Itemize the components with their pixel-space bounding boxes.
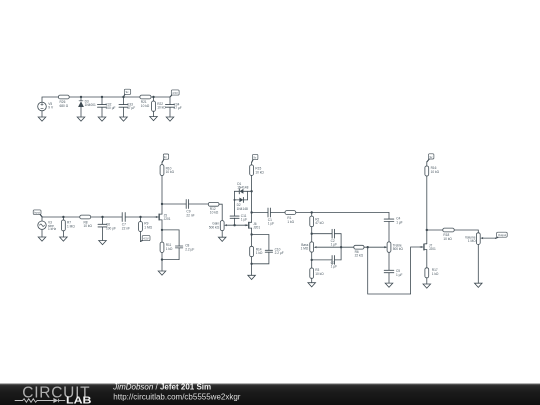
svg-text:100 pF: 100 pF [106, 226, 116, 230]
svg-text:Input: Input [34, 211, 40, 215]
ground (stage2 source) [248, 275, 256, 279]
svg-text:1 kΩ: 1 kΩ [287, 220, 294, 224]
wire R11 bottom [161, 252, 163, 271]
logo wire-resistor-diode [15, 398, 65, 403]
ground (V3) [38, 237, 46, 241]
wire signal rail [42, 216, 122, 218]
svg-text:4.5V: 4.5V [172, 91, 178, 95]
svg-text:22 nF: 22 nF [186, 214, 194, 218]
wire R14 bottom [251, 257, 253, 276]
node flag 4.5V (bias R9) [141, 236, 150, 242]
svg-text:100 µF: 100 µF [106, 106, 116, 110]
resistor R6 [354, 245, 386, 249]
resistor R26 [58, 95, 69, 99]
resistor R8 [80, 215, 91, 219]
ground (R7) [60, 237, 68, 241]
wire diode loop verticals [234, 191, 247, 200]
capacitor C8 [175, 246, 182, 248]
svg-text:1 µF: 1 µF [396, 273, 402, 277]
wire J6 drain [251, 175, 253, 222]
svg-text:10 kΩ: 10 kΩ [443, 237, 452, 241]
svg-text:1 µF: 1 µF [331, 243, 337, 247]
wire J7 source [426, 250, 428, 268]
resistor R7 [62, 217, 66, 237]
transistor J5 [155, 214, 162, 221]
ground (R3) [308, 283, 316, 287]
node junction R6 right [367, 246, 369, 248]
svg-text:1 MΩ: 1 MΩ [144, 225, 152, 229]
node flag Output [496, 232, 508, 238]
svg-text:22 nF: 22 nF [122, 227, 130, 231]
svg-text:1N4001: 1N4001 [85, 103, 96, 107]
node junction J5 source / C8 top [161, 229, 163, 231]
node junction R14 bottom / C10 [250, 263, 252, 265]
resistor R14 [250, 246, 254, 256]
svg-text:500 kΩ: 500 kΩ [209, 225, 220, 229]
svg-text:22 kΩ: 22 kΩ [355, 254, 364, 258]
voltage source V5 [38, 102, 47, 111]
node junction D loop left bottom [234, 199, 236, 201]
capacitor C10 [265, 250, 272, 252]
svg-text:9 V: 9 V [48, 106, 54, 110]
node junction J6 drain / C1 [250, 211, 252, 213]
node junction R22 top [152, 96, 154, 98]
wire C10 branch [252, 235, 269, 264]
node junction J7 drain / R18 [426, 229, 428, 231]
potentiometer Bass [310, 242, 354, 268]
resistor R3 [310, 268, 314, 283]
svg-text:10 kΩ: 10 kΩ [315, 272, 324, 276]
schematic text labels [34, 90, 506, 277]
wire rail R26 to R21 [69, 96, 140, 98]
ground (stage1 source) [158, 271, 166, 275]
resistor R15 [250, 162, 254, 175]
resistor R9 [139, 217, 143, 241]
node flag 9v (R16) [427, 154, 434, 162]
svg-text:LAB: LAB [66, 396, 92, 405]
node junction R11 bottom / C8 [161, 258, 163, 260]
diode D2 [234, 197, 247, 202]
capacitor C4 [384, 213, 394, 242]
ground (R22) [150, 117, 158, 121]
wire V3 bottom [41, 229, 43, 237]
footer bar [0, 384, 540, 405]
ground (Volume pot) [475, 283, 483, 287]
svg-text:J201: J201 [164, 217, 171, 221]
svg-text:1N4148: 1N4148 [237, 186, 248, 190]
node junction J5 drain / C9 [161, 203, 163, 205]
capacitor C34 [166, 97, 175, 117]
potentiometer Treble [384, 242, 391, 270]
svg-text:1 kΩ: 1 kΩ [432, 272, 439, 276]
node junction R7 top [62, 216, 64, 218]
svg-text:1 µF: 1 µF [331, 265, 337, 269]
capacitor C5 [384, 270, 394, 283]
node flag 4.5V (supply) [170, 90, 179, 97]
ground (C33) [120, 117, 128, 121]
resistor R10 [160, 162, 164, 176]
node junction tone input [311, 211, 313, 213]
node flag 9v (supply) [124, 89, 131, 97]
node junction R9 top [139, 216, 141, 218]
capacitor C1 [252, 208, 285, 217]
node flag 9v (R15) [252, 154, 258, 162]
svg-text:1 MΩ: 1 MΩ [301, 247, 309, 251]
svg-text:1 MΩ: 1 MΩ [468, 239, 476, 243]
resistor R12 [208, 202, 222, 220]
ground (V5) [38, 117, 46, 121]
wire J7 drain [426, 176, 428, 244]
svg-text:Output: Output [498, 233, 506, 237]
node junction wiper cross [340, 246, 342, 248]
resistor R16 [425, 162, 429, 176]
svg-text:1N4148: 1N4148 [237, 207, 248, 211]
svg-text:J201: J201 [253, 225, 260, 229]
node junction Bass bottom [311, 259, 313, 261]
svg-text:J201: J201 [429, 247, 436, 251]
svg-text:1 µF: 1 µF [241, 218, 247, 222]
voltage source V3 [38, 221, 46, 229]
capacitor C2 [312, 229, 341, 238]
svg-text:1 µF: 1 µF [396, 220, 402, 224]
svg-text:1 kHz: 1 kHz [48, 227, 57, 231]
capacitor C3 [312, 256, 341, 265]
svg-text:1 MΩ: 1 MΩ [67, 224, 75, 228]
potentiometer Volume [476, 233, 496, 283]
svg-text:1 kΩ: 1 kΩ [256, 251, 263, 255]
resistor R2 [310, 213, 314, 242]
wire J5 drain [161, 176, 163, 215]
wire V3 top to signal rail [41, 217, 43, 221]
svg-text:1 µF: 1 µF [268, 222, 274, 226]
svg-text:10 kΩ: 10 kΩ [255, 170, 264, 174]
wire V5 top to rail [42, 97, 58, 102]
svg-text:10 kΩ: 10 kΩ [210, 211, 219, 215]
node junction R2 bottom [311, 233, 313, 235]
svg-text:1 kΩ: 1 kΩ [166, 247, 173, 251]
svg-text:500 kΩ: 500 kΩ [393, 247, 404, 251]
capacitor C33 [119, 97, 128, 117]
resistor R18 [427, 228, 479, 233]
node junction C32 top [101, 96, 103, 98]
wire R21 to C34 [151, 96, 170, 98]
svg-text:680 Ω: 680 Ω [60, 104, 69, 108]
ground (R17) [423, 284, 431, 288]
diode D3 [78, 97, 84, 117]
wire C8 branch [162, 230, 179, 260]
potentiometer Gain [220, 221, 247, 238]
ground (Gain pot) [218, 237, 226, 241]
wire J6 source [251, 228, 253, 246]
ground (C34) [166, 117, 174, 121]
node junction D1 drain [250, 190, 252, 192]
diode D1 [234, 189, 251, 194]
resistor R11 [160, 242, 164, 252]
wire routing to J7 gate [368, 247, 422, 294]
resistor R21 [140, 95, 151, 99]
svg-text:2.2 µF: 2.2 µF [185, 247, 194, 251]
svg-text:10 kΩ: 10 kΩ [166, 170, 175, 174]
capacitor C6 [98, 217, 107, 241]
capacitor C32 [98, 97, 107, 117]
node junction C33 top [122, 96, 124, 98]
ground (C32) [98, 117, 106, 121]
svg-text:10 kΩ: 10 kΩ [431, 170, 440, 174]
wire J5 source [161, 220, 163, 242]
capacitor C9 [162, 200, 208, 209]
svg-text:10 kΩ: 10 kΩ [84, 224, 93, 228]
transistor J7 [420, 244, 427, 251]
svg-text:JimDobson / Jefet 201 Sim: JimDobson / Jefet 201 Sim [112, 382, 211, 391]
svg-text:4.5V: 4.5V [143, 237, 149, 241]
transistor J6 [245, 222, 252, 229]
node flag Input [33, 210, 42, 217]
wire V5 bottom [41, 111, 43, 117]
ground (D3) [77, 117, 85, 121]
capacitor C7 [122, 213, 156, 222]
capacitor C11 [230, 200, 239, 225]
resistor R17 [425, 268, 429, 284]
node junction C6 top [101, 216, 103, 218]
svg-text:10 kΩ: 10 kΩ [157, 106, 166, 110]
svg-text:10 kΩ: 10 kΩ [141, 104, 150, 108]
resistor R1 [285, 211, 389, 215]
node junction D3 top [80, 96, 82, 98]
node flag 9v (R10) [162, 154, 169, 162]
node junction J6 source / C10 top [250, 233, 252, 235]
ground (C6) [99, 241, 107, 245]
svg-text:http://circuitlab.com/cb5555we: http://circuitlab.com/cb5555we2xkgr [113, 393, 241, 402]
svg-text:2.2 µF: 2.2 µF [275, 251, 284, 255]
svg-text:47 kΩ: 47 kΩ [315, 221, 324, 225]
wire tone right vertical [340, 234, 342, 260]
svg-text:47 µF: 47 µF [174, 106, 182, 110]
svg-text:47 µF: 47 µF [127, 106, 135, 110]
node junction gate J6 / C11 [233, 224, 235, 226]
ground (C5) [385, 283, 393, 287]
resistor R22 [152, 97, 156, 117]
